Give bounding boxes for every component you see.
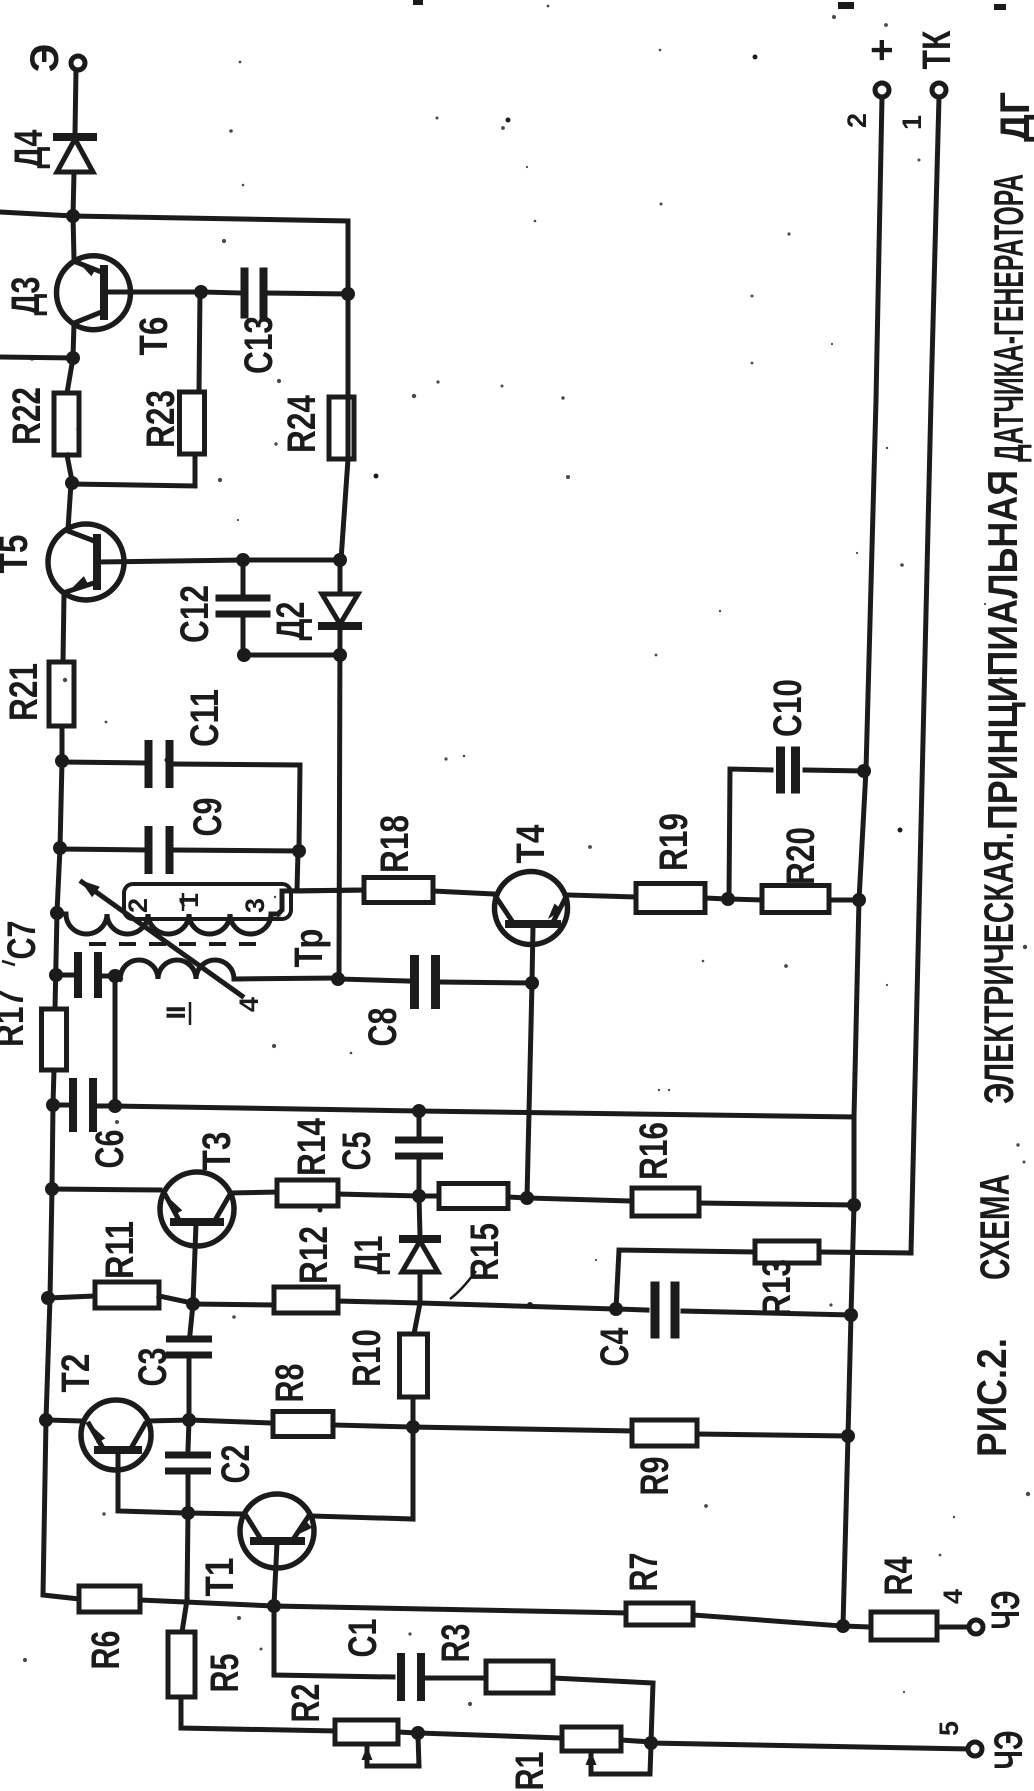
svg-text:1: 1 — [174, 893, 204, 908]
wire C10 to +rail — [805, 770, 863, 771]
node: C10 / +rail — [857, 764, 871, 778]
node: C13 / R24 column — [341, 287, 355, 301]
wire C3 to T2 collector node — [187, 1360, 192, 1419]
svg-text:C6: C6 — [88, 1130, 132, 1169]
node: T2 emitter / left rail — [39, 1413, 53, 1427]
diode D2 — [322, 594, 358, 624]
capacitor C7 — [56, 973, 74, 978]
capacitor C6 — [53, 1103, 68, 1108]
wire T3 base — [193, 1224, 196, 1303]
resistor R15 — [439, 1184, 508, 1209]
node: C2 / T2 base / T1 collector — [181, 1506, 195, 1520]
node: D2 / C12 — [333, 648, 347, 662]
wire C2 bottom to T1 node — [186, 1476, 191, 1513]
wire R16 to +rail — [699, 1203, 853, 1205]
capacitor C5 — [395, 1137, 443, 1144]
wire R18 to T4 collector — [433, 891, 494, 894]
wire R9 to +rail — [697, 1434, 847, 1436]
wire top rail to R24 column — [73, 216, 348, 294]
svg-text:R10: R10 — [345, 1329, 389, 1387]
transistor T3 — [160, 1172, 234, 1246]
diode D4 — [57, 133, 93, 141]
svg-text:R15: R15 — [463, 1223, 507, 1281]
transformer Tr: shield box — [124, 884, 291, 919]
wire R5 to R2 — [181, 1697, 335, 1731]
wire R12 to D1 junction to C4 node — [338, 1301, 616, 1309]
capacitor C2 — [165, 1452, 211, 1459]
svg-text:Тр: Тр — [287, 929, 331, 968]
wire stub to D3 (cut off at edge) — [0, 357, 73, 358]
svg-text:Э: Э — [23, 44, 67, 72]
wire T2 base — [118, 1452, 186, 1513]
wire rail corner to R6 — [43, 1420, 79, 1599]
node: R19 / R20 / C10 branch — [721, 892, 735, 906]
capacitor C12 — [216, 595, 271, 602]
wire T1 base — [274, 1543, 277, 1605]
svg-text:R18: R18 — [373, 815, 417, 873]
svg-text:Д2: Д2 — [269, 602, 313, 641]
svg-text:R7: R7 — [622, 1553, 666, 1592]
wire node to C9 — [60, 849, 144, 850]
resistor R14 — [277, 1180, 338, 1206]
svg-text:2: 2 — [842, 114, 872, 128]
wire winding I terminal 3 — [278, 890, 364, 914]
wire stub to diode Д3 (cut off at edge) — [0, 212, 73, 216]
svg-text:ДАТЧИКА-ГЕНЕРАТОРА: ДАТЧИКА-ГЕНЕРАТОРА — [985, 174, 1032, 462]
wire C12 top — [241, 560, 246, 594]
resistor R8 — [273, 1412, 333, 1437]
wire T6 base to node — [106, 290, 201, 295]
wire node to R12 — [193, 1304, 274, 1305]
node: R1 / R3 / output wire — [644, 1736, 658, 1750]
wire C4 to +rail — [683, 1311, 850, 1315]
terminal ЧЭ (pin 4) — [969, 1620, 983, 1634]
svg-text:R23: R23 — [139, 390, 183, 448]
wire R23 top — [199, 292, 200, 392]
terminal + (pin 2) — [875, 83, 889, 97]
svg-text:C12: C12 — [173, 585, 217, 643]
wire node to R8 — [189, 1420, 273, 1423]
resistor R9: wire left — [413, 1427, 632, 1431]
svg-text:R6: R6 — [84, 1631, 128, 1670]
terminal ЧЭ (pin 5) — [968, 1742, 982, 1756]
main horizontal bus — [115, 1106, 854, 1117]
transformer Tr: winding II (3 humps) — [120, 960, 240, 979]
svg-text:3: 3 — [240, 898, 270, 913]
wire R14 to node — [338, 1194, 419, 1196]
node: T1 base / R7 / C1 branch — [267, 1599, 281, 1613]
terminal ТК (pin 1) — [932, 83, 946, 97]
node: R22 / R23 / T5 emitter — [65, 476, 79, 490]
node: T3 base / R11 / R12 / C3 — [186, 1297, 200, 1311]
wire D2 anode — [338, 560, 343, 594]
scan specks — [413, 0, 423, 5]
node: C5 / bus — [412, 1104, 426, 1118]
resistor R20 — [762, 886, 829, 913]
wire R15 left — [419, 1194, 439, 1199]
svg-text:R4: R4 — [877, 1556, 921, 1596]
node: C4 / R13 branch — [609, 1302, 623, 1316]
wire C5 to node — [417, 1161, 422, 1195]
wire T3 collector to R14 — [231, 1192, 277, 1193]
svg-text:Д3: Д3 — [4, 277, 48, 316]
svg-text:R1: R1 — [508, 1752, 552, 1791]
capacitor C1 — [397, 1653, 405, 1701]
capacitor C4 — [651, 1282, 660, 1339]
svg-text:РИС.2.: РИС.2. — [968, 1338, 1015, 1457]
node: R9 / +rail — [841, 1429, 855, 1443]
resistor R19 — [636, 884, 705, 913]
wire R10 to node — [411, 1397, 416, 1427]
node: left rail / R11 — [41, 1291, 55, 1305]
node: T6 base / R23 / C13 — [194, 285, 208, 299]
resistor R3 — [486, 1661, 553, 1693]
wire D1 anode to base row — [418, 1272, 423, 1303]
terminal Э (emitter output, pin 3) — [71, 56, 85, 70]
node: R21 / C11 / left rail — [55, 754, 69, 768]
left rail segment — [60, 761, 62, 848]
node: C9 / C11 column — [292, 844, 306, 858]
svg-text:ДГ: ДГ — [991, 92, 1034, 142]
svg-text:ЭЛЕКТРИЧЕСКАЯ.: ЭЛЕКТРИЧЕСКАЯ. — [975, 832, 1022, 1104]
svg-text:R14: R14 — [290, 1117, 334, 1176]
wire T4 emitter to R19 — [568, 895, 636, 897]
svg-text:R3: R3 — [434, 1624, 478, 1663]
node: T6 collector / R22 / D3 stub — [66, 351, 80, 365]
svg-text:ЧЭ: ЧЭ — [987, 1731, 1031, 1770]
node: C7 / R17 / left rail — [49, 968, 63, 982]
node: D4 / T6 emitter / top rail / D3 stub — [66, 209, 80, 223]
node: C5 / R14 / R15 / D1 — [412, 1189, 426, 1203]
wire R18 left — [297, 890, 364, 891]
wire node to T1 collector — [188, 1513, 242, 1514]
node: R7 / R4 / +rail — [836, 1619, 850, 1633]
wire D4 to node — [73, 172, 74, 216]
wire C13 to R24 column — [267, 293, 348, 294]
svg-text:R5: R5 — [203, 1654, 247, 1693]
wire node to D2 column — [243, 558, 340, 563]
resistor R7 — [626, 1603, 693, 1625]
wire T2 emitter to rail — [46, 1420, 84, 1421]
wire C3 top — [190, 1304, 193, 1334]
resistor R16 — [632, 1188, 699, 1216]
wire T6 collector — [73, 324, 74, 356]
svg-text:R13: R13 — [755, 1259, 799, 1317]
svg-text:C5: C5 — [335, 1132, 379, 1171]
svg-text:R12: R12 — [292, 1226, 336, 1284]
wire right branch down — [113, 976, 118, 1105]
wire R23 bottom to node — [72, 454, 195, 486]
svg-text:2: 2 — [123, 899, 153, 913]
wire node to T5 emitter — [68, 483, 71, 529]
wire T4 base line down to R15 node — [527, 983, 532, 1198]
wire winding II terminal 4 to node — [234, 978, 337, 979]
node: C4 / +rail — [844, 1308, 858, 1322]
left rail segment — [46, 1298, 50, 1420]
wire R2 to node — [398, 1732, 417, 1733]
wire T2 collector to node — [148, 1420, 189, 1421]
resistor R24 — [329, 397, 354, 459]
resistor R2 (trimmer) — [335, 1720, 398, 1744]
svg-text:+: + — [860, 38, 904, 61]
node: R16 / +rail — [847, 1198, 861, 1212]
node: T2 collector / C3 / C2 / R8 — [182, 1413, 196, 1427]
svg-text:R22: R22 — [5, 387, 49, 445]
wire node to C13 — [201, 292, 241, 293]
node: C7 / winding II / right branch — [108, 969, 122, 983]
wire R22 bottom to node — [67, 455, 72, 481]
node: R8 / R10 / R9 / T1 emitter — [406, 1420, 420, 1434]
node: R15 / R16 / T4 base line — [520, 1191, 534, 1205]
wire T5 collector to R21 — [63, 594, 64, 662]
capacitor C8 — [410, 955, 419, 1009]
wire rail to R11 — [48, 1296, 95, 1298]
left rail segment — [50, 1105, 53, 1298]
wire C7 right to node — [102, 974, 115, 979]
+ rail — [843, 97, 882, 1626]
wire R20 to +rail — [829, 898, 858, 903]
svg-text:T4: T4 — [509, 824, 553, 864]
wire R15 to node — [508, 1197, 527, 1198]
node: D2 top — [333, 553, 347, 567]
wire R6 to T1 base junction — [140, 1600, 274, 1606]
wire R11 to T3 base node — [159, 1296, 192, 1303]
wire T4 base — [532, 926, 533, 982]
wire C10 branch up — [729, 769, 771, 898]
svg-text:ЧЭ: ЧЭ — [984, 1591, 1028, 1630]
wire T5 base — [99, 560, 242, 562]
svg-text:C3: C3 — [131, 1348, 175, 1387]
wire column down to winding-3 wire — [297, 851, 298, 890]
capacitor C3 — [166, 1336, 212, 1343]
wire R1 left — [418, 1733, 562, 1738]
node: C9 / left rail — [53, 841, 67, 855]
svg-text:R21: R21 — [2, 663, 46, 721]
resistor R6 — [79, 1586, 140, 1612]
R1 wiper arrow — [586, 1751, 597, 1765]
svg-text:R24: R24 — [280, 394, 324, 453]
svg-text:ТК: ТК — [915, 30, 959, 69]
svg-text:T3: T3 — [195, 1132, 239, 1171]
svg-text:R9: R9 — [633, 1457, 677, 1496]
wire to R5 — [182, 1600, 187, 1632]
svg-text:СХЕМА: СХЕМА — [971, 1174, 1018, 1280]
transformer Tr: winding I (5 humps) — [57, 914, 278, 934]
resistor R9 — [632, 1420, 697, 1446]
wire C9 to right column — [174, 850, 298, 851]
wire C1 branch — [274, 1606, 393, 1677]
svg-text:Д1: Д1 — [347, 1236, 391, 1275]
svg-text:R19: R19 — [652, 813, 696, 871]
transistor T1 — [240, 1494, 314, 1568]
left rail segment — [57, 848, 60, 912]
wire node to R20 — [728, 899, 762, 900]
wire to terminal 5 — [651, 1743, 968, 1749]
node: transformer winding I / left rail — [50, 906, 64, 920]
wire R21 to node — [60, 726, 65, 760]
transistor T2 — [81, 1400, 151, 1470]
svg-text:C13: C13 — [237, 316, 281, 374]
resistor R4 — [871, 1612, 937, 1640]
svg-text:5: 5 — [934, 1721, 964, 1736]
svg-text:R2: R2 — [284, 1684, 328, 1723]
wire T1 base node to R7 — [274, 1606, 626, 1613]
resistor R13 — [755, 1241, 819, 1263]
svg-text:C10: C10 — [766, 679, 810, 737]
capacitor C10 — [776, 747, 785, 794]
svg-text:C8: C8 — [361, 1008, 405, 1047]
svg-text:T6: T6 — [132, 317, 176, 356]
capacitor C13 — [241, 268, 249, 319]
transistor T4 — [495, 872, 568, 945]
node: R20 / +rail — [852, 893, 866, 907]
svg-text:ПРИНЦИПИАЛЬНАЯ: ПРИНЦИПИАЛЬНАЯ — [979, 470, 1026, 830]
wire R13 to TK rail — [819, 1252, 911, 1253]
resistor R23 — [180, 392, 205, 454]
svg-text:C1: C1 — [341, 1619, 385, 1658]
svg-text:C11: C11 — [183, 689, 227, 747]
node: T5 base / C12 — [236, 553, 250, 567]
wire R8 to node — [333, 1425, 413, 1427]
transformer Tr: tuning-core arrow — [82, 882, 242, 996]
wire winding II left terminal — [116, 976, 120, 979]
svg-text:R16: R16 — [632, 1122, 676, 1180]
left rail to R17 — [55, 913, 57, 1009]
wire T3 emitter to left rail — [52, 1189, 160, 1190]
wire R17 to node — [53, 1070, 54, 1104]
wire R13 branch — [616, 1250, 755, 1309]
svg-text:4: 4 — [234, 997, 264, 1012]
transformer Tr: core (dashed) — [89, 942, 262, 946]
svg-text:Д4: Д4 — [7, 129, 51, 169]
wire terminal Э to diode Д4 — [75, 70, 76, 134]
wire C8 left node — [331, 972, 345, 986]
svg-text:T1: T1 — [198, 1558, 242, 1597]
wire R4 left — [843, 1626, 871, 1627]
wire T1 emitter to R9 node — [311, 1427, 413, 1519]
node: R2 / R1 — [411, 1726, 425, 1740]
wire C1 to R3 — [426, 1676, 486, 1681]
wire base row to R10 — [414, 1303, 420, 1334]
wire D1 top — [419, 1196, 420, 1236]
resistor R11 — [95, 1282, 159, 1308]
wire R4 to terminal 4 — [937, 1625, 969, 1630]
resistor R12 — [274, 1287, 338, 1313]
ТК rail — [911, 97, 939, 1253]
resistor R22 — [54, 393, 79, 455]
wire R19 to node — [705, 898, 727, 899]
node: R17 / C6 / left rail — [46, 1098, 60, 1112]
wire node to C11 — [62, 762, 144, 763]
wire to R22 — [67, 358, 73, 393]
node: bus start — [108, 1099, 122, 1113]
wire bus to C5 — [417, 1111, 422, 1134]
transistor T6 — [57, 256, 131, 330]
wire C11 to right column — [174, 764, 300, 849]
capacitor C11 — [145, 740, 153, 788]
resistor R18 — [364, 878, 433, 903]
svg-text:T5: T5 — [0, 535, 36, 574]
wire R7 to +rail end — [693, 1615, 842, 1626]
svg-text:II: II — [161, 1006, 191, 1019]
svg-text:C2: C2 — [214, 1445, 258, 1484]
wire C2 top — [188, 1420, 189, 1450]
svg-text:R11: R11 — [98, 1221, 142, 1279]
wire C8 to T4 base node — [440, 982, 532, 983]
wire C12 node to D2 bottom node — [244, 653, 340, 658]
diode D1 — [403, 1235, 437, 1243]
svg-text:4: 4 — [938, 1589, 968, 1604]
wire R24 to D2 node — [346, 294, 351, 459]
wire D2 node down to transformer node — [339, 628, 340, 979]
resistor R21 — [49, 662, 74, 726]
capacitor C9 — [145, 826, 153, 874]
svg-text:R20: R20 — [779, 827, 823, 885]
wire R3 to bottom node — [553, 1678, 653, 1742]
leader line R15 — [450, 1271, 476, 1299]
wire R1 to node — [621, 1740, 651, 1742]
wire C6 to bus start node — [97, 1104, 115, 1109]
resistor R17 — [42, 1009, 67, 1070]
svg-text:1: 1 — [897, 115, 927, 130]
wire C4 left — [616, 1309, 647, 1310]
svg-text:C7: C7 — [0, 921, 44, 960]
wire vertical to R6/R5 — [187, 1513, 188, 1600]
R2 wiper arrow — [362, 1746, 373, 1760]
node: C12 bottom — [237, 648, 251, 662]
wire T6 emitter — [73, 216, 74, 259]
svg-text:C9: C9 — [186, 798, 230, 837]
resistor R1 — [562, 1727, 621, 1751]
resistor R10 — [400, 1334, 428, 1397]
svg-text:C4: C4 — [593, 1327, 637, 1367]
transistor T5 — [48, 524, 124, 600]
svg-text:R8: R8 — [268, 1364, 312, 1403]
node: T4 base / C8 — [525, 976, 539, 990]
node: T3 emitter / left rail — [45, 1182, 59, 1196]
svg-text:R17: R17 — [0, 989, 32, 1047]
wire C12 bottom — [241, 618, 246, 655]
svg-text:T2: T2 — [54, 1354, 98, 1393]
scan noise specks — [659, 49, 662, 52]
resistor R5 — [168, 1632, 195, 1697]
wire R16 left — [527, 1198, 632, 1201]
